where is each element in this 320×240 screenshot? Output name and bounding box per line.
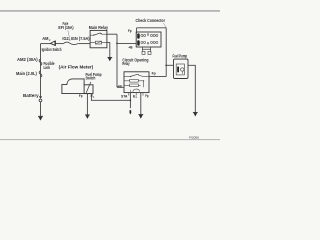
svg-text:Switch: Switch: [86, 75, 96, 80]
wire: relay contact output to +B riser: [107, 33, 117, 35]
wire: Fp branch to fuel pump: [166, 64, 173, 66]
ground (AFM): [85, 114, 90, 116]
arrow to starter (solid): [130, 110, 132, 113]
svg-text:Fp: Fp: [128, 29, 132, 33]
wire: relay coil to ground: [107, 43, 110, 58]
COR coil L2: [124, 84, 130, 86]
bottom rule: [0, 138, 220, 141]
wire: fuse to main relay: [78, 43, 90, 45]
COR internal switch: [124, 76, 130, 78]
svg-text:STA: STA: [121, 94, 128, 98]
connector bracket: [142, 47, 150, 51]
ground (COR E1): [138, 114, 143, 116]
wire: +B into COR: [117, 86, 124, 88]
fuel pump switch box: [84, 85, 93, 94]
battery arrow: [39, 96, 42, 99]
wire: battery feed horizontal to ignition switch: [41, 43, 51, 45]
svg-text:2: 2: [49, 38, 51, 42]
circuit opening relay box: [124, 72, 149, 93]
air flow meter outline: [62, 79, 91, 94]
wire: +B riser: [116, 34, 118, 87]
wire: fuel pump outlet to ground: [188, 65, 195, 112]
wire: AFM Fp to ground: [86, 94, 88, 115]
COR internal arc to E1: [133, 89, 140, 92]
wire: Fp loop drop to pin: [136, 28, 138, 33]
svg-text:Main (2.0L): Main (2.0L): [16, 71, 37, 76]
svg-text:+B: +B: [128, 45, 133, 49]
svg-text:Link: Link: [44, 65, 51, 70]
pin +B (dark): [137, 40, 140, 45]
wire: battery to ground: [40, 102, 42, 116]
leader Check Connector: [163, 23, 166, 28]
node STA junction: [130, 100, 132, 102]
COR coil L1: [124, 80, 130, 82]
ground (battery): [38, 115, 43, 117]
svg-text:(Air Flow Meter): (Air Flow Meter): [59, 65, 94, 70]
svg-text:Fp: Fp: [145, 94, 149, 98]
check connector CN1: [136, 32, 161, 47]
top rule: [0, 10, 220, 11]
svg-text:Fp: Fp: [152, 71, 157, 75]
svg-text:+B: +B: [117, 85, 122, 89]
svg-text:AM2 (30A): AM2 (30A): [17, 57, 38, 62]
battery terminal circle: [39, 99, 42, 102]
svg-text:EFI (15A): EFI (15A): [58, 25, 74, 30]
main relay coil: [90, 42, 95, 44]
node +B junction: [116, 43, 118, 45]
svg-text:Check Connector: Check Connector: [136, 18, 166, 23]
svg-text:Fp: Fp: [79, 94, 83, 98]
fusible link Main (2.0L): [39, 71, 42, 77]
svg-text:Ignition Switch: Ignition Switch: [42, 47, 62, 52]
svg-text:IG2, IGN (7.5A): IG2, IGN (7.5A): [62, 36, 90, 41]
connector pins (small sockets): [141, 34, 158, 44]
node fuel pump branch: [165, 64, 167, 66]
svg-text:Fuel Pump: Fuel Pump: [173, 54, 188, 59]
main relay internal switch: [90, 34, 93, 36]
svg-text:1: 1: [93, 95, 95, 99]
wire: STA down to starter: [129, 93, 131, 109]
wire: Fp loop top: [137, 27, 167, 29]
svg-text:1: 1: [136, 95, 138, 99]
svg-text:Battery: Battery: [23, 93, 39, 98]
svg-text:Main Relay: Main Relay: [89, 25, 109, 30]
COR terminal ticks: [129, 93, 143, 96]
fuse EFI (15A) symbol: [64, 42, 79, 44]
fuel pump motor: [176, 64, 184, 75]
svg-text:Relay: Relay: [122, 61, 130, 66]
pin Fp (dark): [137, 33, 140, 38]
wire: COR Fp output: [149, 76, 166, 78]
main relay box: [90, 30, 107, 47]
wire: switch to fuse: [55, 43, 63, 45]
wire: +B branch to check connector: [117, 42, 136, 44]
svg-text:FI2056: FI2056: [189, 135, 199, 139]
wire: Fp riser to fuel pump line: [165, 28, 167, 77]
fuel pump box: [174, 59, 189, 78]
ignition switch SW1 symbol: [50, 41, 55, 45]
ground (main relay): [107, 56, 112, 58]
fusible link AM2 (30A): [39, 59, 42, 65]
fuel pump switch blade: [86, 82, 91, 93]
wire: battery feed vertical: [40, 44, 42, 97]
ground (fuel pump): [193, 111, 198, 113]
wire: E1 down to ground: [140, 93, 142, 115]
leader from Fuse label to fuse: [68, 30, 70, 41]
wire: AFM E1 to STA line: [91, 94, 130, 101]
